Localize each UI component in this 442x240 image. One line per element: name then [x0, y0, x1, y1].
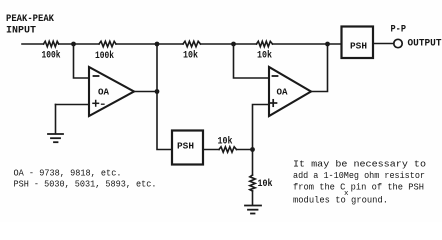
- wire node A down to U1 inverting input: [74, 44, 90, 78]
- resistor R1 100k: [44, 41, 59, 46]
- svg-text:PSH: PSH: [350, 41, 367, 52]
- op-amp U4: [269, 67, 311, 116]
- svg-text:10k: 10k: [258, 178, 273, 190]
- U4 minus pin mark: [273, 75, 278, 77]
- wire R5 to node F: [237, 149, 253, 151]
- U1 small dash after plus: [102, 103, 105, 105]
- wire R2 to node B to R3: [116, 43, 183, 45]
- svg-text:100k: 100k: [42, 50, 61, 62]
- ground G2: [245, 206, 261, 214]
- node A junction: [71, 42, 76, 47]
- resistor R6 10k vertical: [250, 175, 255, 191]
- wire R1 to node A to R2: [59, 43, 99, 45]
- wire U3 output to terminal: [373, 43, 394, 45]
- wire down to ground G1: [55, 105, 57, 134]
- svg-text:PEAK-PEAK: PEAK-PEAK: [6, 13, 55, 25]
- svg-text:add a 1-10Meg ohm resistor: add a 1-10Meg ohm resistor: [293, 170, 425, 181]
- svg-text:from the C pin of the PSH: from the C pin of the PSH: [293, 182, 424, 193]
- label PEAK-PEAK INPUT: [6, 13, 55, 37]
- svg-text:OUTPUT: OUTPUT: [408, 39, 442, 50]
- resistor R3 10k: [183, 41, 201, 46]
- wire input segment: [22, 43, 44, 45]
- wire ground to U1 non-inverting input: [56, 104, 90, 106]
- resistor R5 10k: [219, 147, 237, 152]
- wire node B down through node E to PSH U2 input: [157, 44, 172, 150]
- svg-text:INPUT: INPUT: [6, 25, 36, 37]
- node F junction: [250, 147, 255, 152]
- svg-text:PSH - 5030, 5031, 5893, etc.: PSH - 5030, 5031, 5893, etc.: [14, 179, 157, 190]
- wire U4 output up to node D: [311, 44, 328, 92]
- svg-text:10k: 10k: [218, 136, 233, 148]
- wire node C down to U4 inverting input: [234, 44, 270, 78]
- output terminal circle: [394, 39, 402, 47]
- svg-text:100k: 100k: [95, 50, 114, 62]
- svg-text:It may be necessary to: It may be necessary to: [293, 159, 426, 170]
- node B junction: [155, 42, 160, 47]
- PSH module U2: [172, 131, 203, 165]
- svg-text:modules to ground.: modules to ground.: [293, 195, 388, 206]
- node C junction: [231, 42, 236, 47]
- wire R3 to node C to R4: [201, 43, 257, 45]
- wire R4 to node D to PSH U3: [273, 43, 342, 45]
- wire U1 output to node E: [134, 91, 157, 93]
- note paragraph: [293, 159, 426, 206]
- wire node F up to U4 non-inverting input: [253, 105, 270, 150]
- PSH module U3: [342, 27, 374, 59]
- node D junction: [325, 42, 330, 47]
- svg-text:OA: OA: [277, 87, 288, 98]
- ground G1: [48, 134, 63, 142]
- wire U2 output to R5: [203, 149, 219, 151]
- U4 plus pin mark: [270, 102, 277, 104]
- svg-text:10k: 10k: [257, 50, 272, 62]
- node E junction: [155, 89, 160, 94]
- resistor R2 100k: [99, 41, 116, 46]
- svg-text:OA: OA: [98, 87, 109, 98]
- resistor R4 10k: [257, 41, 273, 46]
- wire node F down to R6: [252, 150, 254, 176]
- svg-text:OA - 9738, 9818, etc.: OA - 9738, 9818, etc.: [14, 168, 122, 179]
- wire R6 to ground G2: [252, 191, 254, 205]
- svg-text:P-P: P-P: [391, 25, 407, 36]
- svg-text:10k: 10k: [183, 50, 198, 62]
- op-amp U1: [89, 67, 134, 116]
- U1 minus pin mark: [94, 75, 99, 77]
- U1 plus pin mark: [93, 102, 99, 104]
- svg-text:PSH: PSH: [177, 141, 194, 152]
